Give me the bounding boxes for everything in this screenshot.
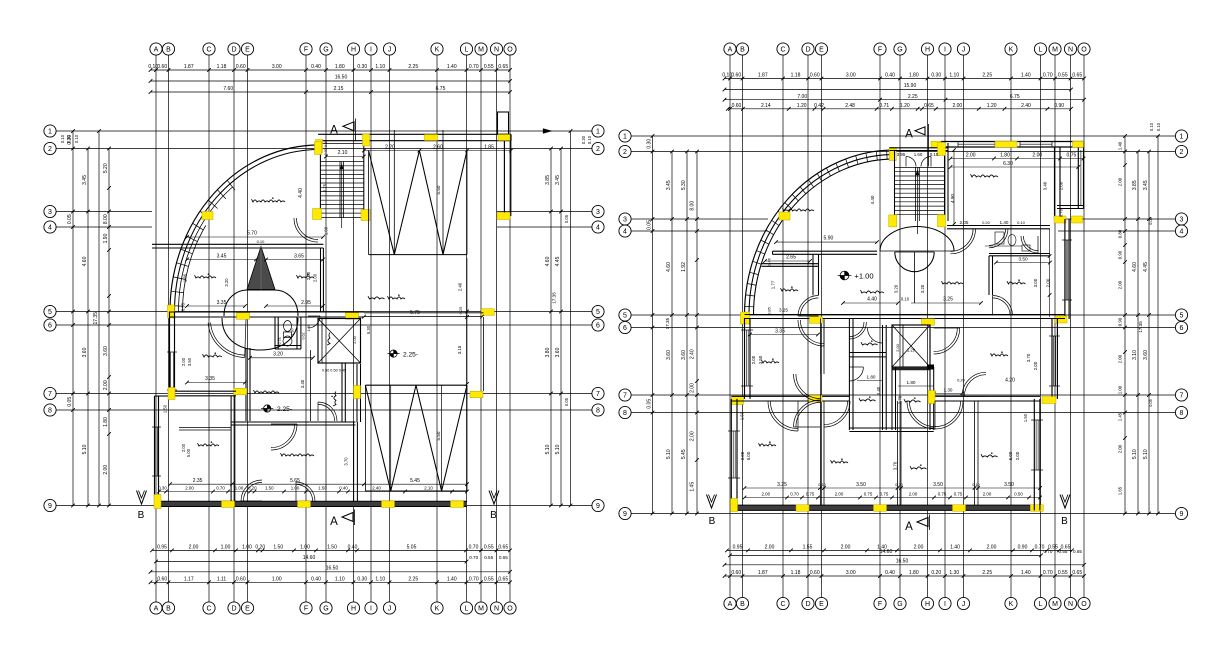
- hall dims 4.40 / 0.10 / 3.25: [841, 284, 983, 305]
- interior rot dims rows 7-9: [740, 411, 1029, 470]
- svg-text:1.00: 1.00: [291, 485, 300, 490]
- upper panel dimensions 2.20/2.60/1.85: [362, 144, 513, 194]
- left plan west dim chain (3.45/4.60/3.60/5.10): [82, 147, 90, 508]
- columns at staircase: [889, 143, 946, 227]
- right plan east wall rows 5-7: [1049, 319, 1060, 399]
- svg-text:7.00: 7.00: [797, 94, 807, 100]
- svg-text:5.50: 5.50: [436, 185, 441, 194]
- svg-text:0.65: 0.65: [1073, 549, 1082, 554]
- svg-text:3.85: 3.85: [1132, 180, 1138, 190]
- svg-text:0.75: 0.75: [864, 491, 873, 496]
- svg-text:1.50: 1.50: [163, 404, 168, 413]
- svg-text:N: N: [494, 47, 499, 54]
- columns on row-7 wall: [809, 391, 1056, 404]
- svg-text:K: K: [435, 47, 440, 54]
- svg-text:2.00: 2.00: [765, 545, 775, 551]
- svg-text:14.60: 14.60: [303, 555, 316, 561]
- svg-text:0.20: 0.20: [255, 545, 265, 551]
- left plan column grid lines: [156, 55, 510, 602]
- svg-text:3: 3: [48, 209, 52, 216]
- svg-text:2.48: 2.48: [845, 103, 855, 109]
- arched niche wall below cone: [224, 290, 298, 316]
- svg-text:5.10: 5.10: [555, 444, 561, 454]
- parking width dim 5.75: [362, 310, 484, 334]
- svg-text:1.30: 1.30: [944, 387, 953, 392]
- lower ramp panel (W brace): [365, 385, 467, 491]
- storage room label (khazin): [252, 199, 286, 202]
- svg-text:0.60: 0.60: [810, 73, 820, 79]
- svg-text:2.00: 2.00: [761, 491, 770, 496]
- svg-text:1.50: 1.50: [265, 485, 274, 490]
- column balcony bottom corner: [1072, 216, 1083, 223]
- svg-text:3.15: 3.15: [457, 345, 462, 354]
- svg-text:N: N: [1068, 601, 1073, 608]
- left plan bottom dimension chain 2: [149, 577, 512, 585]
- svg-text:5.10: 5.10: [1132, 449, 1138, 459]
- main wall on row 7 right plan (west segment): [731, 396, 849, 401]
- svg-text:J: J: [962, 47, 966, 54]
- right plan top grid bubbles A-O: [724, 43, 1090, 55]
- svg-text:8: 8: [623, 410, 627, 417]
- svg-text:0.42: 0.42: [814, 103, 824, 109]
- svg-text:8: 8: [596, 408, 600, 415]
- right plan section mark B bottom-left: [707, 495, 717, 528]
- svg-text:1.40: 1.40: [1000, 220, 1009, 225]
- svg-text:1.50: 1.50: [327, 545, 337, 551]
- svg-text:1.11: 1.11: [217, 577, 227, 583]
- svg-text:A: A: [154, 606, 159, 613]
- svg-text:0.10: 0.10: [587, 135, 592, 144]
- right plan east dim chain inner: [1117, 134, 1127, 515]
- svg-text:O: O: [1081, 47, 1087, 54]
- svg-text:1.40: 1.40: [1021, 73, 1031, 79]
- svg-text:4.60: 4.60: [666, 262, 672, 272]
- svg-text:9: 9: [1180, 511, 1184, 518]
- svg-text:1.50: 1.50: [318, 485, 327, 490]
- svg-text:C: C: [780, 601, 785, 608]
- svg-text:0.70: 0.70: [1059, 208, 1064, 217]
- svg-text:0.40: 0.40: [339, 485, 348, 490]
- svg-text:1.40: 1.40: [1117, 141, 1122, 150]
- svg-text:3.50: 3.50: [758, 355, 763, 364]
- WC room walls: [275, 317, 301, 349]
- svg-text:5.20: 5.20: [103, 163, 109, 173]
- guest room south wall: [947, 226, 1050, 229]
- svg-text:3.20: 3.20: [920, 284, 925, 293]
- right plan bottom overall dimension 16.50: [723, 559, 1086, 567]
- column east wall row3: [1054, 216, 1066, 223]
- columns on bottom wall: [154, 495, 464, 509]
- svg-text:0.90: 0.90: [1054, 103, 1064, 109]
- left plan top exterior wall: [318, 134, 511, 143]
- svg-text:5.65: 5.65: [290, 478, 300, 484]
- stair top dims 3.95 1.60 0.15: [897, 152, 939, 157]
- bedroom labels right plan: [759, 351, 1009, 469]
- svg-text:0.75: 0.75: [1067, 152, 1077, 158]
- WC tiny dims: [278, 325, 311, 345]
- svg-text:0.05: 0.05: [564, 397, 569, 406]
- svg-text:4.40: 4.40: [870, 195, 875, 204]
- svg-text:1.87: 1.87: [758, 570, 768, 576]
- columns on bottom wall: [731, 499, 1044, 512]
- svg-text:5.00: 5.00: [746, 451, 751, 460]
- dimensions 3.35 / 2.95 above row 5: [181, 300, 325, 311]
- arched opening lower (lobby): [895, 252, 934, 303]
- door swing lounge bottom wall: [296, 482, 315, 501]
- shaft label: [327, 333, 330, 346]
- arched opening upper (lobby): [880, 227, 954, 252]
- bath east thin wall line: [310, 350, 312, 421]
- svg-text:5: 5: [1180, 313, 1184, 320]
- svg-text:F: F: [304, 47, 308, 54]
- svg-text:1.85: 1.85: [484, 144, 494, 150]
- svg-text:0.50: 0.50: [1014, 491, 1023, 496]
- svg-text:0.20: 0.20: [982, 220, 991, 225]
- svg-text:0.65: 0.65: [498, 577, 508, 583]
- svg-text:4.20: 4.20: [1005, 377, 1015, 383]
- right plan section mark A bottom: [905, 515, 929, 534]
- hall label (sala): [861, 290, 885, 293]
- svg-text:2.65: 2.65: [786, 255, 796, 261]
- right plan bottom dimension chain 1: [725, 545, 1074, 553]
- svg-text:17.35: 17.35: [1138, 321, 1143, 333]
- left plan row grid lines 1-9: [56, 131, 592, 506]
- left plan roof projection rectangle at top right: [498, 112, 509, 134]
- svg-text:1.92: 1.92: [681, 262, 687, 272]
- right plan top overall dimension 15.90: [723, 83, 1073, 91]
- bedroom SW label (nom): [203, 354, 223, 357]
- svg-text:0.75: 0.75: [938, 491, 947, 496]
- svg-text:1.18: 1.18: [217, 64, 227, 70]
- svg-text:2.25-: 2.25-: [277, 406, 292, 413]
- svg-text:3.00: 3.00: [272, 64, 282, 70]
- toilet: [283, 332, 292, 346]
- svg-text:M: M: [1052, 47, 1058, 54]
- right plan west wall rows 5-7: [741, 318, 753, 399]
- svg-text:1: 1: [596, 129, 600, 136]
- section mark A bottom: [330, 510, 354, 529]
- upper bedroom dims 3.35 / 3.70 / 4.20: [748, 328, 1038, 370]
- column at parking west edge row7: [470, 391, 483, 398]
- left plan west dim line ticks: [67, 129, 75, 507]
- bath door arcs: [849, 328, 882, 381]
- svg-text:8: 8: [48, 408, 52, 415]
- svg-text:F: F: [304, 606, 308, 613]
- svg-text:16.50: 16.50: [335, 75, 348, 81]
- svg-text:H: H: [351, 606, 356, 613]
- svg-text:3.20: 3.20: [894, 284, 899, 293]
- svg-text:N: N: [1068, 47, 1073, 54]
- shaft with X brace right plan: [892, 325, 930, 367]
- svg-text:2.14: 2.14: [761, 103, 771, 109]
- svg-text:6: 6: [48, 323, 52, 330]
- svg-text:0.71: 0.71: [879, 103, 889, 109]
- svg-text:M: M: [1052, 601, 1058, 608]
- svg-text:3.45: 3.45: [217, 253, 227, 259]
- parking north boundary line: [364, 312, 484, 314]
- guest room label west of stair (dhiyafa): [783, 208, 815, 211]
- svg-text:2.60: 2.60: [433, 144, 443, 150]
- svg-text:5.00: 5.00: [1008, 451, 1013, 460]
- svg-text:L: L: [465, 47, 469, 54]
- svg-text:5: 5: [48, 309, 52, 316]
- svg-text:1.17: 1.17: [184, 577, 194, 583]
- svg-text:0.46: 0.46: [767, 257, 772, 266]
- svg-text:4.90: 4.90: [950, 194, 955, 203]
- svg-text:I: I: [370, 47, 372, 54]
- svg-text:0.30: 0.30: [158, 485, 167, 490]
- right plan balcony east wall: [1078, 142, 1083, 209]
- svg-text:0.75: 0.75: [278, 338, 282, 345]
- east kitchen side dim line: [1048, 229, 1052, 317]
- svg-text:0.95: 0.95: [733, 545, 743, 551]
- svg-text:4.45: 4.45: [555, 256, 561, 266]
- svg-text:2.00: 2.00: [1117, 177, 1122, 186]
- stair side dim 4.90: [950, 148, 956, 226]
- svg-text:5.10: 5.10: [82, 444, 88, 454]
- svg-text:L: L: [1039, 47, 1043, 54]
- svg-text:2.00: 2.00: [1046, 278, 1051, 287]
- svg-text:3.70: 3.70: [1026, 353, 1031, 362]
- svg-text:2.00: 2.00: [895, 343, 900, 352]
- hall north wall: [773, 251, 878, 254]
- svg-text:0.75: 0.75: [806, 491, 815, 496]
- svg-text:3.60: 3.60: [681, 350, 687, 360]
- svg-text:L: L: [1039, 601, 1043, 608]
- svg-text:0.40: 0.40: [885, 73, 895, 79]
- svg-text:E: E: [819, 601, 824, 608]
- svg-text:8.00: 8.00: [690, 201, 696, 211]
- svg-text:3: 3: [596, 209, 600, 216]
- svg-text:4.45: 4.45: [1143, 262, 1149, 272]
- svg-text:1: 1: [623, 134, 627, 141]
- svg-text:5: 5: [623, 313, 627, 320]
- svg-text:4.40: 4.40: [298, 188, 304, 198]
- svg-text:1.40: 1.40: [447, 577, 457, 583]
- right plan top sub-total dimensions: [723, 94, 1086, 102]
- dim 6.30: [949, 161, 1080, 169]
- svg-text:1.40: 1.40: [1021, 570, 1031, 576]
- svg-text:0.60: 0.60: [157, 577, 167, 583]
- svg-text:1.80: 1.80: [1000, 152, 1010, 158]
- svg-text:0.30: 0.30: [324, 140, 328, 147]
- svg-text:3.45: 3.45: [555, 175, 561, 185]
- svg-text:H: H: [925, 601, 930, 608]
- row line arrow right of plan: [543, 129, 552, 134]
- svg-text:2.35: 2.35: [193, 478, 203, 484]
- west kitchen dims: [763, 255, 812, 315]
- hall level marker -2.25: [261, 405, 292, 413]
- svg-text:0.10: 0.10: [1149, 122, 1154, 131]
- kitchen label (matbakh): [198, 443, 220, 446]
- left plan west exterior wall rows 7-9 (stepped out): [152, 396, 170, 501]
- svg-text:0.10: 0.10: [257, 239, 266, 244]
- svg-text:1.50: 1.50: [273, 545, 283, 551]
- svg-text:0.10: 0.10: [1156, 122, 1161, 131]
- svg-text:4: 4: [596, 225, 600, 232]
- svg-text:0.60: 0.60: [731, 73, 741, 79]
- left plan top sub-total dimensions: [149, 86, 512, 94]
- svg-text:3.70: 3.70: [344, 457, 349, 466]
- svg-text:6.30: 6.30: [1003, 161, 1013, 167]
- svg-text:D: D: [231, 47, 236, 54]
- svg-text:M: M: [478, 47, 484, 54]
- right plan top dimension chain 2: [726, 103, 1073, 111]
- svg-text:1.20: 1.20: [987, 103, 997, 109]
- svg-text:2.00: 2.00: [983, 491, 992, 496]
- svg-text:0.95: 0.95: [157, 545, 167, 551]
- svg-text:1.86: 1.86: [183, 273, 188, 282]
- svg-text:A: A: [154, 47, 159, 54]
- svg-text:C: C: [206, 606, 211, 613]
- svg-text:9: 9: [623, 511, 627, 518]
- svg-text:1.20: 1.20: [797, 103, 807, 109]
- left plan bottom dimension chain 1: [150, 545, 512, 553]
- svg-text:3.40: 3.40: [1043, 181, 1048, 190]
- svg-text:2: 2: [596, 146, 600, 153]
- svg-text:4.60: 4.60: [545, 256, 551, 266]
- svg-text:A: A: [905, 129, 913, 141]
- left plan east exterior wall: [504, 134, 510, 216]
- svg-text:0.62: 0.62: [302, 333, 306, 340]
- svg-text:1.40: 1.40: [950, 545, 960, 551]
- svg-text:3.60: 3.60: [555, 347, 561, 357]
- svg-text:0.65: 0.65: [498, 64, 508, 70]
- svg-text:J: J: [962, 601, 966, 608]
- svg-text:0.40: 0.40: [348, 545, 358, 551]
- svg-text:0.55: 0.55: [1058, 570, 1068, 576]
- svg-text:2.00: 2.00: [740, 451, 745, 460]
- svg-text:A: A: [330, 125, 338, 137]
- svg-text:1.00: 1.00: [300, 545, 310, 551]
- bedroom east wall: [321, 248, 324, 312]
- svg-text:1.45: 1.45: [1117, 412, 1122, 421]
- svg-text:5.45: 5.45: [681, 449, 687, 459]
- svg-text:16.50: 16.50: [896, 559, 909, 565]
- svg-text:7: 7: [623, 393, 627, 400]
- svg-text:4.60: 4.60: [82, 256, 88, 266]
- svg-text:3.60: 3.60: [666, 350, 672, 360]
- svg-text:3.65: 3.65: [294, 253, 304, 259]
- left plan bottom exterior wall (solid): [155, 501, 468, 506]
- svg-text:2.70: 2.70: [898, 395, 903, 404]
- svg-text:2.10: 2.10: [424, 485, 433, 490]
- svg-text:G: G: [897, 601, 902, 608]
- right plan section mark A top: [905, 124, 928, 167]
- level marker +1.00: [838, 271, 874, 280]
- svg-text:O: O: [507, 47, 513, 54]
- svg-text:1: 1: [1180, 134, 1184, 141]
- svg-text:1.60: 1.60: [914, 152, 923, 157]
- svg-text:0.05: 0.05: [1148, 216, 1153, 225]
- svg-text:8: 8: [1180, 410, 1184, 417]
- svg-text:B: B: [166, 47, 171, 54]
- svg-text:O: O: [1081, 601, 1087, 608]
- column on arc middle: [779, 212, 790, 220]
- svg-text:5: 5: [596, 309, 600, 316]
- svg-text:1.10: 1.10: [335, 577, 345, 583]
- svg-text:1.80: 1.80: [909, 73, 919, 79]
- svg-text:0.90: 0.90: [1117, 250, 1122, 259]
- svg-text:G: G: [323, 606, 328, 613]
- svg-text:5.05: 5.05: [407, 545, 417, 551]
- svg-text:5.10: 5.10: [545, 444, 551, 454]
- right plan east wall rows 3-5: [1062, 219, 1072, 319]
- svg-text:J: J: [388, 606, 392, 613]
- svg-text:3.60: 3.60: [1143, 350, 1149, 360]
- svg-text:17.35: 17.35: [552, 292, 557, 304]
- svg-text:B: B: [166, 606, 171, 613]
- left plan east small dims near rows: [564, 135, 592, 406]
- svg-text:0.55: 0.55: [484, 64, 494, 70]
- columns on row-5 wall: [237, 313, 359, 320]
- svg-text:0.25: 0.25: [458, 306, 463, 315]
- svg-text:B: B: [1061, 516, 1068, 527]
- column on arc middle: [202, 212, 213, 220]
- svg-text:K: K: [1009, 47, 1014, 54]
- svg-text:0.05: 0.05: [646, 220, 652, 230]
- svg-text:3.20: 3.20: [273, 352, 283, 358]
- svg-text:0.05: 0.05: [564, 214, 569, 223]
- parking east dims 2.40/0.25/3.15: [457, 258, 469, 386]
- svg-text:2: 2: [623, 149, 627, 156]
- right plan right row bubbles 1-9: [1175, 130, 1187, 520]
- svg-text:0.30: 0.30: [357, 577, 367, 583]
- svg-text:2.00: 2.00: [181, 357, 186, 366]
- svg-text:2.00: 2.00: [751, 355, 756, 364]
- svg-text:1.50: 1.50: [740, 411, 745, 420]
- svg-text:4.60: 4.60: [1132, 262, 1138, 272]
- right plan west dim chain mid: [681, 150, 689, 516]
- column arc bottom: [741, 312, 750, 324]
- svg-text:0.10: 0.10: [74, 134, 79, 143]
- left plan staircase: [320, 134, 363, 228]
- svg-text:0.10: 0.10: [818, 483, 825, 487]
- upper ramp panel V2: [369, 130, 467, 255]
- svg-text:O: O: [507, 606, 513, 613]
- svg-text:2.00: 2.00: [103, 380, 109, 390]
- svg-text:0.40: 0.40: [885, 570, 895, 576]
- svg-text:B: B: [709, 516, 716, 527]
- hall 3.20 dimension: [248, 352, 315, 360]
- column hall west row7: [234, 388, 247, 395]
- svg-text:2.00: 2.00: [1117, 354, 1122, 363]
- svg-text:F: F: [878, 47, 882, 54]
- svg-text:1.90: 1.90: [103, 233, 109, 243]
- dims above bottom wall right plan row b: [743, 491, 1042, 499]
- kitchen north wall on row 7: [170, 391, 237, 396]
- svg-text:3.50: 3.50: [1018, 256, 1028, 262]
- svg-text:3.45: 3.45: [666, 180, 672, 190]
- svg-text:6.75: 6.75: [436, 86, 446, 92]
- svg-text:K: K: [1009, 601, 1014, 608]
- columns at staircase corners: [313, 134, 511, 221]
- svg-text:0.55: 0.55: [1058, 73, 1068, 79]
- svg-text:0.10: 0.10: [60, 134, 65, 143]
- svg-text:7: 7: [48, 391, 52, 398]
- svg-text:5.30: 5.30: [366, 325, 371, 334]
- svg-text:2.40: 2.40: [458, 282, 463, 291]
- svg-text:J: J: [388, 47, 392, 54]
- upper west bedroom door swing: [798, 320, 824, 346]
- svg-text:3.25: 3.25: [779, 308, 788, 313]
- bedroom dimensions 3.45 / 3.65: [183, 253, 325, 286]
- svg-text:2.10: 2.10: [338, 150, 348, 156]
- svg-text:E: E: [819, 47, 824, 54]
- svg-text:C: C: [780, 47, 785, 54]
- column west wall row7 corner: [732, 397, 744, 405]
- svg-text:0.55: 0.55: [1059, 549, 1068, 554]
